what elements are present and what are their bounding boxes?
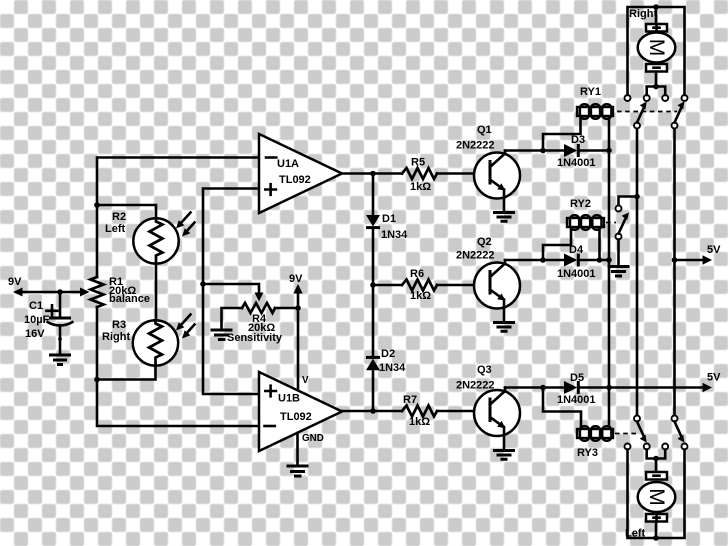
diode D2 (366, 285, 380, 411)
svg-text:10µF: 10µF (24, 314, 50, 326)
node junction motor left bottom (653, 535, 659, 541)
photoresistor R3 (133, 315, 195, 366)
op-amp U1A (259, 134, 342, 213)
svg-text:1N4001: 1N4001 (557, 394, 596, 406)
transistor Q3 (474, 388, 520, 451)
contact circles RY1 (625, 95, 688, 101)
svg-text:R3: R3 (112, 319, 126, 331)
label Right (629, 8, 657, 20)
diode D5 (543, 381, 609, 394)
wire R3 bottom to left rail (97, 366, 156, 380)
svg-text:1N4001: 1N4001 (557, 268, 596, 280)
wire RY2 coil right lead (598, 227, 601, 260)
svg-text:GND: GND (302, 433, 324, 444)
diode D4 (543, 254, 609, 267)
label RY1 (580, 86, 601, 98)
svg-text:16V: 16V (25, 328, 45, 340)
contact circles RY3 (625, 444, 688, 450)
svg-text:R2: R2 (112, 211, 126, 223)
label Q3 (456, 364, 495, 392)
svg-text:5V: 5V (707, 372, 721, 384)
svg-text:M: M (645, 488, 668, 506)
resistor R1 (91, 277, 104, 307)
label 5V upper (707, 244, 721, 256)
wire motor right plus feed (628, 7, 685, 95)
label R7 (403, 394, 430, 428)
transistor Q1 (474, 151, 520, 213)
label RY2 (570, 198, 591, 210)
svg-text:Q2: Q2 (477, 236, 492, 248)
wire motor right minus merge (647, 72, 666, 96)
wire Q2 collector (505, 259, 543, 262)
node junction U1B out / R7 (370, 408, 376, 414)
node junction Q1 collector (540, 148, 546, 154)
label Q1 (456, 124, 495, 152)
node junction C1 top (57, 289, 63, 295)
relay coil RY1 (577, 104, 613, 118)
wire R2 to R3 (155, 264, 158, 321)
wire Q1 collector (505, 149, 543, 152)
node junction mid rail (200, 281, 206, 287)
svg-text:D3: D3 (571, 134, 585, 146)
relay RY3 switch right arm (672, 416, 685, 443)
svg-text:Q3: Q3 (477, 364, 492, 376)
svg-text:D1: D1 (382, 213, 396, 225)
wire 5V tap upper (675, 255, 713, 264)
wire U1A output (342, 172, 373, 175)
resistor R7 (373, 406, 490, 417)
node junction Q2 collector (540, 257, 546, 263)
ground Q2 emitter (493, 323, 515, 332)
svg-text:9V: 9V (289, 273, 303, 285)
capacitor C1 (47, 292, 74, 355)
svg-text:9V: 9V (8, 276, 22, 288)
node junction rail / RY2 contact (634, 194, 640, 200)
wire U1B output (342, 410, 373, 413)
node junction Q3 collector (540, 385, 546, 391)
wire coil rail (D3-D4-D5 cathodes) (608, 151, 611, 388)
label D2 (379, 348, 406, 374)
rail right contact column (673, 129, 676, 417)
node junction 9V rail / R4 (295, 305, 301, 311)
ground below C1 (49, 355, 71, 365)
9V supply arrow (289, 273, 303, 389)
wire RY1 coil left lead (543, 116, 581, 151)
resistor R6 (373, 280, 490, 291)
svg-text:U1B: U1B (278, 393, 300, 405)
resistor R5 (373, 168, 490, 179)
svg-text:2N2222: 2N2222 (456, 250, 495, 262)
label R2 (105, 211, 126, 235)
svg-text:2N2222: 2N2222 (456, 140, 495, 152)
label R5 (410, 157, 431, 194)
label 9V left (8, 276, 22, 288)
node junction D3 cathode (606, 148, 612, 154)
node junction motor right top (653, 4, 659, 10)
svg-text:Q1: Q1 (477, 124, 492, 136)
label R1 (109, 276, 150, 305)
svg-text:RY2: RY2 (570, 198, 591, 210)
wire RY1 coil right lead (608, 116, 611, 151)
svg-text:1kΩ: 1kΩ (410, 181, 431, 193)
ground RY2 (608, 267, 630, 277)
svg-text:balance: balance (109, 293, 150, 305)
label R6 (410, 268, 431, 302)
svg-text:1N34: 1N34 (381, 229, 408, 241)
photoresistor R2 (133, 213, 194, 264)
label D5 (557, 372, 596, 406)
wire RY3 coil right lead (608, 388, 611, 430)
wire left rail lower (to U1B minus) (97, 307, 259, 426)
dashed linkage RY3 (615, 433, 636, 435)
node junction R2 top (94, 202, 100, 208)
diode D1 (366, 174, 380, 286)
svg-text:2N2222: 2N2222 (456, 380, 495, 392)
dashed linkage RY2 (606, 222, 616, 224)
relay coil RY3 (577, 426, 613, 440)
rail left contact column (636, 129, 639, 417)
svg-text:RY3: RY3 (577, 447, 598, 459)
dashed linkage RY1 (617, 111, 677, 113)
wire RY2 coil left lead (543, 227, 571, 260)
wire R4 wiper (203, 284, 264, 302)
label Left (625, 528, 646, 540)
svg-text:1kΩ: 1kΩ (410, 290, 431, 302)
motor right (M) (638, 7, 676, 72)
relay RY2 switch arm (616, 213, 630, 240)
svg-text:U1A: U1A (277, 158, 299, 170)
label pin V (302, 375, 309, 386)
svg-text:1N34: 1N34 (379, 362, 406, 374)
svg-text:Left: Left (105, 223, 126, 235)
relay RY1 switch left arm (634, 102, 647, 129)
ground Q3 emitter (493, 451, 515, 460)
svg-text:1N4001: 1N4001 (557, 157, 596, 169)
ground U1B (287, 466, 309, 476)
label R3 (102, 319, 130, 343)
svg-text:Left: Left (625, 528, 646, 540)
wire RY3 coil left lead (543, 388, 581, 430)
node junction motor left minus (653, 456, 659, 462)
wire Q3 collector (505, 386, 543, 389)
svg-text:Sensitivity: Sensitivity (227, 332, 283, 344)
svg-text:TL092: TL092 (279, 174, 311, 186)
node junction R3 bottom (94, 377, 100, 383)
svg-text:R7: R7 (403, 394, 417, 406)
svg-text:TL092: TL092 (280, 411, 312, 423)
node junction rail / 5V (672, 257, 678, 263)
svg-text:5V: 5V (707, 244, 721, 256)
op-amp U1B (259, 372, 342, 451)
relay RY1 switch right arm (672, 102, 685, 129)
wire left rail upper (to U1A minus) (97, 158, 259, 278)
svg-text:C1: C1 (29, 300, 43, 312)
svg-text:R5: R5 (411, 157, 425, 169)
wire 5V tap lower (609, 383, 712, 392)
wire motor left plus feed (628, 450, 685, 539)
node junction motor right minus (653, 84, 659, 90)
label Q2 (456, 236, 495, 262)
svg-text:R6: R6 (410, 268, 424, 280)
label D1 (381, 213, 408, 241)
label D4 (557, 244, 596, 280)
svg-text:V: V (302, 375, 309, 386)
wire RY2 arm to ground (617, 240, 620, 267)
transistor Q2 (474, 260, 520, 323)
diode D3 (543, 144, 609, 157)
potentiometer R4 (222, 303, 299, 330)
ground R4 (211, 330, 233, 340)
contact circle RY2 top (616, 206, 622, 212)
svg-text:M: M (645, 39, 668, 57)
pin GND of U1B (298, 433, 324, 466)
node junction U1A out / D1 (370, 171, 376, 177)
wire motor left minus merge (647, 450, 666, 473)
label C1 (24, 300, 58, 340)
wire mid rail (plus inputs) (203, 189, 259, 395)
node junction D5 cathode (606, 385, 612, 391)
wire to R2 top (97, 205, 156, 218)
label 5V lower (707, 372, 721, 384)
node junction D4 cathode / RY2 (597, 257, 603, 263)
motor left (M) (638, 472, 676, 538)
wire RY2 top contact to rail (619, 197, 638, 206)
svg-text:Right: Right (629, 8, 657, 20)
ground Q1 emitter (493, 213, 515, 222)
svg-text:D2: D2 (381, 348, 395, 360)
svg-text:Right: Right (102, 331, 130, 343)
node junction D4 / coil rail (606, 257, 612, 263)
label D3 (557, 134, 596, 169)
svg-text:1kΩ: 1kΩ (409, 416, 430, 428)
relay RY3 switch left arm (634, 416, 647, 443)
relay coil RY2 (567, 215, 604, 229)
wire 9V to R1 wiper (13, 288, 90, 297)
svg-text:D5: D5 (570, 372, 584, 384)
svg-text:RY1: RY1 (580, 86, 601, 98)
label R4 (227, 313, 283, 344)
label RY3 (577, 447, 598, 459)
node junction D1 / R6 (370, 282, 376, 288)
